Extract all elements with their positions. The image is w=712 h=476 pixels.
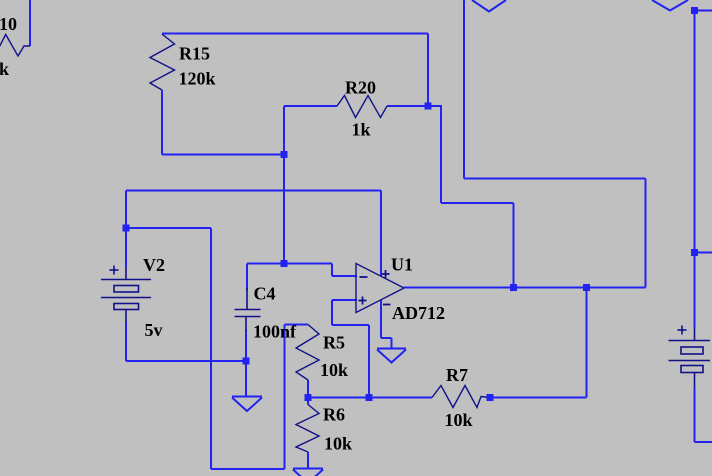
ground for R6 [293,469,323,476]
resistor R10 (partial at left edge) [0,35,30,58]
resistor R20 [337,96,387,118]
node output a [510,284,517,291]
node R7 right [487,394,494,401]
partial symbol V at top left [472,0,506,12]
svg-text:10k: 10k [324,434,352,454]
wire y190 horizontal [126,190,381,192]
svg-text:R15: R15 [179,44,210,64]
wire C4 top lead [246,264,248,291]
wire C4 bottom lead [245,330,247,361]
wire opamp output [404,287,646,289]
svg-text:R7: R7 [446,365,468,385]
wire top right node right [695,10,712,12]
node top right [691,7,698,14]
resistor R6 [296,405,319,453]
svg-text:R5: R5 [323,333,345,353]
svg-text:C4: C4 [254,284,276,304]
svg-text:AD712: AD712 [392,303,445,323]
wire ground stem C4 [245,361,247,397]
wire opamp Vminus pin [380,300,382,338]
wire y397 to R7 [490,397,587,399]
wire left down to V2 node [125,191,127,229]
node R20 right [425,103,432,110]
battery V2 [101,266,151,323]
ground for C4/V2 [232,397,262,412]
svg-text:V2: V2 [143,255,165,275]
wire R5 bottom lead [307,380,309,405]
op-amp U1 input plus mark [359,297,367,305]
wire junction to right jog [428,105,441,107]
wire x369 down [368,325,370,398]
wire x211 down [210,228,212,469]
wire battery bottom [694,387,696,442]
wire R5 top lead [285,324,309,326]
svg-text:R10: R10 [0,14,17,34]
wire R20 right lead [387,105,428,107]
svg-text:k: k [0,59,9,79]
resistor R15 [150,34,175,90]
node V2 plus [123,225,130,232]
wire jog [331,300,333,325]
wire x694 down to battery [694,11,696,328]
op-amp U1 input minus mark [360,276,368,278]
wire y154 horizontal [162,154,284,156]
wire R6 bottom lead [307,452,309,469]
wire y178 left [464,178,646,180]
wire node253 right [695,252,712,254]
node R15 bottom [281,151,288,158]
wire y442 right [695,441,712,443]
wire node228 right [126,227,211,229]
node battery right [691,249,698,256]
wire jog down [331,264,333,277]
battery V3 (partial right edge) [669,326,711,388]
wire y469 bottom [211,468,285,470]
wire y325 [332,324,369,326]
wire V2 top pin [125,228,127,267]
svg-text:10k: 10k [445,410,473,430]
wire to inverting input [332,275,357,277]
op-amp U1 Vminus mark [383,304,391,306]
wire x284 down to node 263 [283,155,285,264]
wire opamp V+ pin [380,191,382,277]
wire net R10 up [29,0,31,46]
svg-text:R6: R6 [323,405,345,425]
wire y263 horizontal to opamp [247,263,332,265]
svg-text:5v: 5v [145,320,163,340]
wire R20 left lead [284,105,337,107]
node output b [583,284,590,291]
wire down to R20 right junction [427,34,429,107]
wire vertical x441 [440,105,442,203]
node C4 bottom [243,358,250,365]
wire x284 up to R5 [284,325,286,470]
wire x586 down [586,288,588,398]
op-amp U1 Vplus mark [382,270,390,278]
wire down to ground [391,338,393,349]
node R5 R6 [305,394,312,401]
wire R7 left lead [308,397,432,399]
wire jog right [381,337,392,339]
wire y361 to C4 node [126,360,246,362]
wire x464 to top [463,0,465,179]
ground for op-amp [377,349,406,363]
svg-text:U1: U1 [391,255,413,275]
svg-text:100nf: 100nf [253,322,297,342]
wire x645 up [645,179,647,288]
wire V2 bottom [125,322,127,361]
capacitor C4 [235,288,261,331]
junction nodes [123,7,699,401]
svg-text:120k: 120k [179,69,216,89]
resistor R7 [432,386,490,408]
svg-text:1k: 1k [352,120,371,140]
node inverting net [281,260,288,267]
svg-text:10k: 10k [320,360,348,380]
wire R15 top horizontal [162,33,428,35]
resistor R5 [296,325,319,381]
wire horizontal y203 [441,202,514,204]
wire R15 bottom lead [161,90,163,155]
wire noninverting input [332,299,357,301]
svg-text:R20: R20 [345,78,376,98]
node feedback mid [366,394,373,401]
partial symbol V at top right [652,0,688,11]
op-amp U1 triangle [356,264,404,313]
wire vertical x513 to output [513,203,515,288]
wire R20 left down [283,106,285,155]
